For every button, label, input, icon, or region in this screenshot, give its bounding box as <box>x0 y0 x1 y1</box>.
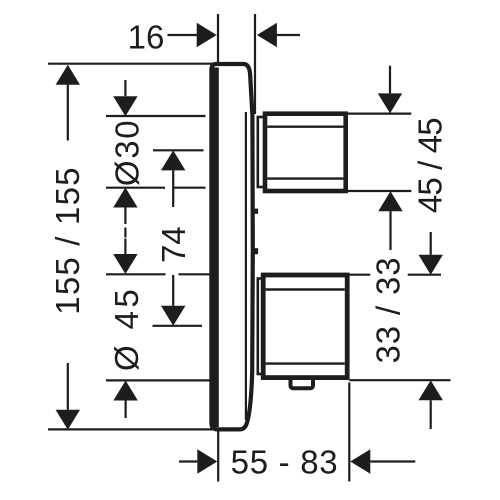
dim 155/155: bottom arrowhead <box>56 410 80 430</box>
dim 74: bottom extension line <box>153 325 203 327</box>
dim 155/155: bottom extension line <box>48 428 214 430</box>
dim 45/45: bottom extension line <box>348 190 411 192</box>
dim 74: top arrowhead <box>161 150 185 170</box>
dim 16: right arrowhead <box>257 23 277 47</box>
svg-text:74: 74 <box>155 226 192 263</box>
dim 74: bottom arrowhead <box>161 306 185 326</box>
dim 155/155: top arrowhead <box>56 65 80 85</box>
svg-text:33 / 33: 33 / 33 <box>369 257 406 364</box>
lower knob inner bottom line <box>266 362 345 364</box>
dim O30: lower stem with dash <box>124 208 126 255</box>
svg-text:16: 16 <box>128 19 165 56</box>
upper knob flange <box>258 117 266 187</box>
dim 33/33: bottom extension line <box>349 379 450 381</box>
lower knob lever tab <box>291 374 314 388</box>
dim O45: top arrowhead <box>113 254 137 274</box>
upper knob inner top line <box>267 125 343 127</box>
dim 155/155: upper stem <box>67 85 69 141</box>
dim 55-83: left extension line <box>217 432 219 482</box>
dim 33/33: bottom arrowhead <box>419 380 443 400</box>
svg-text:155 / 155: 155 / 155 <box>49 166 86 314</box>
dim 55-83: left tail line <box>179 460 197 462</box>
dim 33/33: bottom stem <box>430 400 432 429</box>
dim 16: right tail line <box>277 34 300 36</box>
dim 74: lower stem <box>172 275 174 306</box>
lower knob <box>263 275 347 378</box>
dim 74: top extension line <box>153 149 204 151</box>
dim 45/45: top extension line <box>348 112 411 114</box>
dim 55-83: right tail line <box>370 460 415 462</box>
faceplate front face edge (inner left line) <box>213 68 219 428</box>
dim 33/33: top stem <box>430 232 432 255</box>
faceplate side profile outline <box>211 64 252 429</box>
dim O30: bottom extension line <box>106 187 206 189</box>
svg-text:Ø 45: Ø 45 <box>108 286 145 371</box>
dim 33/33: top extension line <box>350 274 442 276</box>
dim O30: top arrowhead <box>113 96 137 116</box>
svg-text:45 / 45: 45 / 45 <box>412 118 449 213</box>
dim 155/155: top extension line <box>48 63 213 65</box>
dim O45: bottom arrowhead <box>113 381 137 401</box>
dim O45: bottom extension line <box>106 379 212 381</box>
svg-text:Ø30: Ø30 <box>109 119 146 186</box>
dim O30: bottom arrowhead <box>113 188 137 208</box>
dim O45: top extension line <box>106 273 212 275</box>
dim 55-83: right extension line <box>348 383 350 482</box>
faceplate rear right contour <box>245 112 247 420</box>
dim 55-83: right arrowhead <box>350 449 370 473</box>
step nub lower <box>253 248 259 254</box>
dim 45/45: top stem <box>389 66 391 94</box>
dim O30: top extension line <box>106 115 206 117</box>
upper knob inner bottom line <box>267 177 343 179</box>
dim 45/45: top arrowhead <box>378 93 402 113</box>
dim 45/45: bottom arrowhead <box>378 191 402 211</box>
dim 74: upper stem <box>172 170 174 207</box>
dim 16: left arrowhead <box>197 23 217 47</box>
lower knob inner top line <box>266 288 345 290</box>
dim 155/155: lower stem <box>67 363 69 410</box>
dim O30: top stem <box>124 80 126 96</box>
dim 16: left tail line <box>168 34 197 36</box>
dim 16: left extension line <box>217 14 219 63</box>
dim 45/45: bottom stem <box>389 211 391 250</box>
step nub upper <box>253 209 259 214</box>
dim 55-83: left arrowhead <box>197 449 217 473</box>
dim 16: right extension line <box>254 14 256 114</box>
upper knob <box>265 114 346 191</box>
lower knob flange <box>258 279 265 375</box>
dim 33/33: top arrowhead <box>419 255 443 275</box>
svg-text:55 - 83: 55 - 83 <box>231 444 339 481</box>
dim O45: bottom stem <box>124 401 126 419</box>
